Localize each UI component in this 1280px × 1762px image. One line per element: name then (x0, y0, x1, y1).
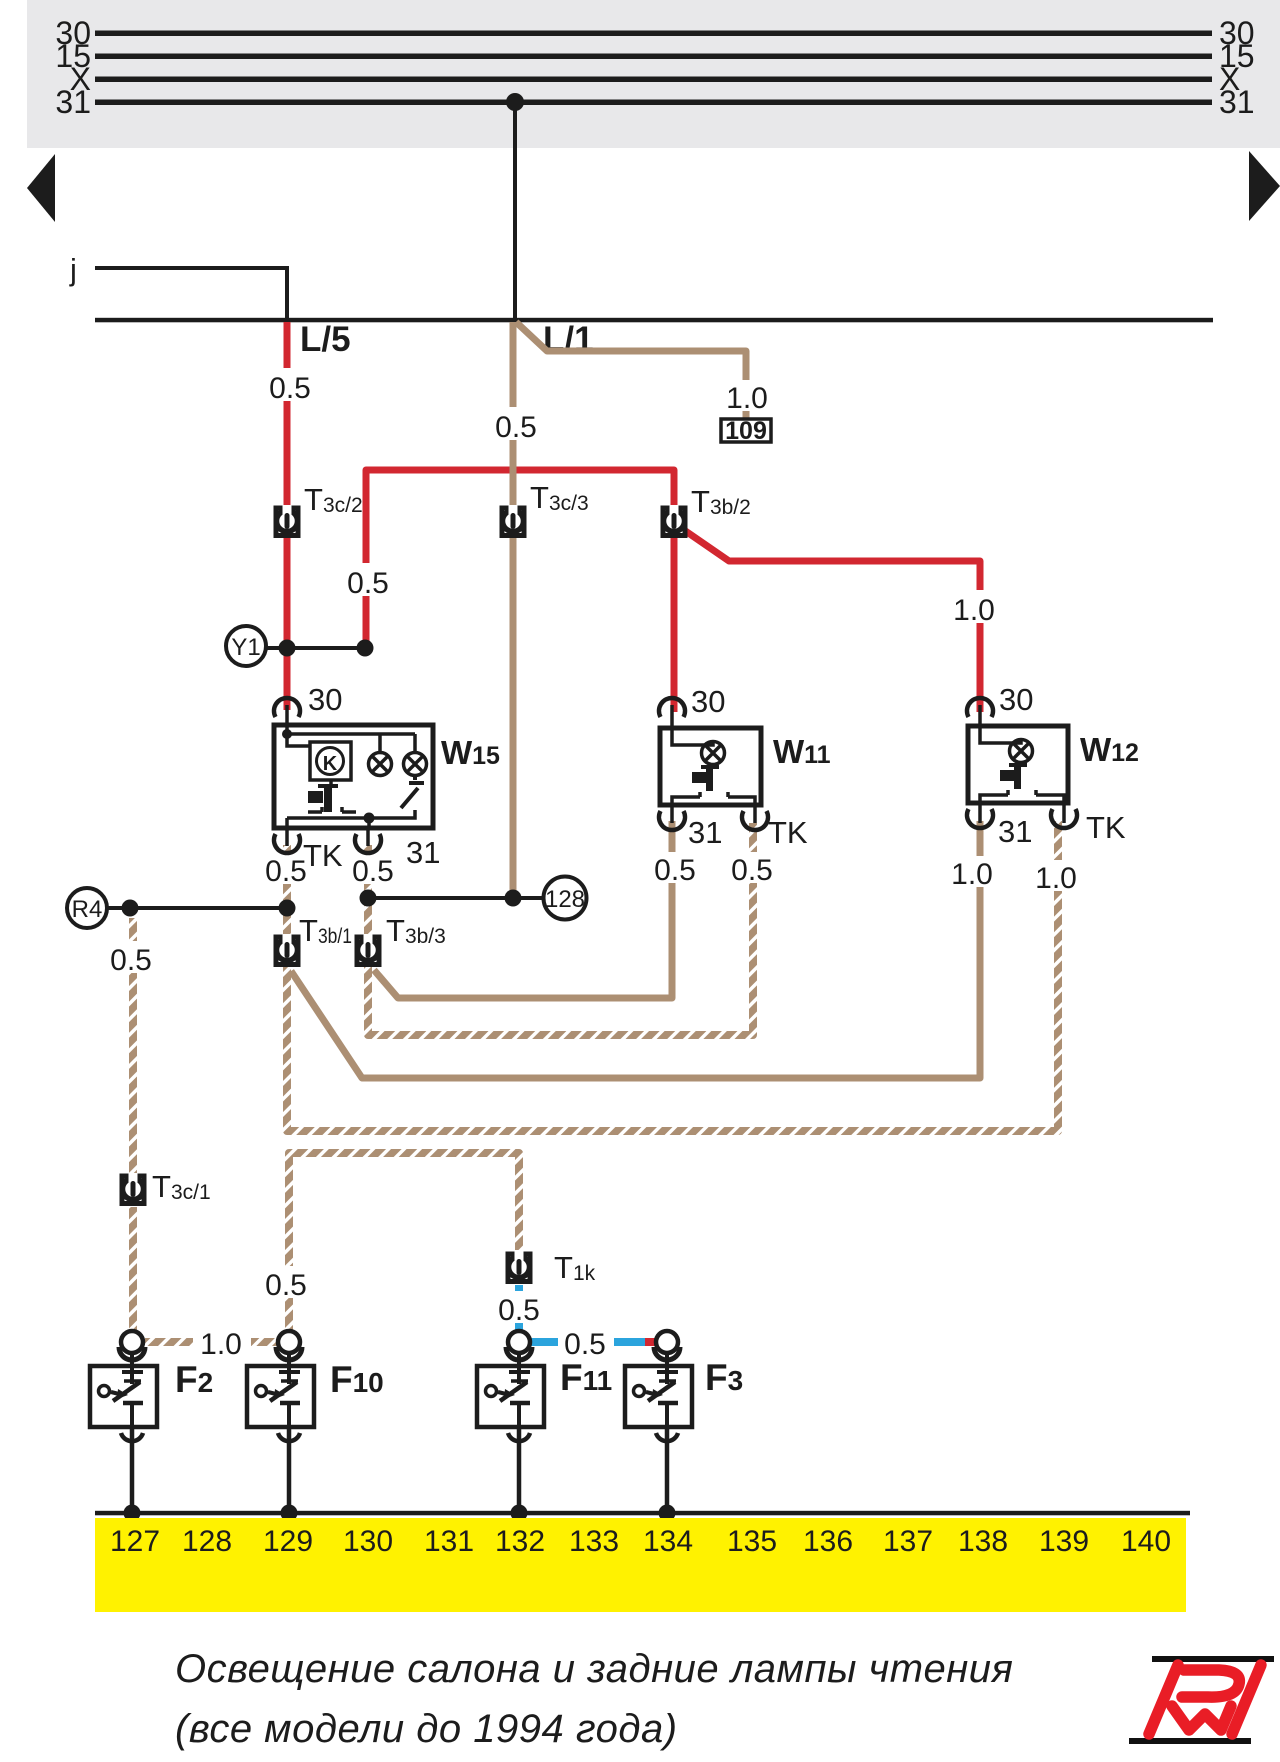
bus wire 31 (95, 100, 1212, 106)
wire tan W12 31 to T3b/1 (291, 821, 980, 1078)
svg-text:30: 30 (691, 684, 725, 719)
svg-text:Y1: Y1 (231, 634, 260, 661)
internal top rail (287, 734, 415, 753)
svg-text:136: 136 (803, 1525, 853, 1558)
wire hatched T3b/1 to W12 TK (287, 821, 1058, 1131)
lamp 1 (369, 753, 392, 776)
wire Y1 link (266, 646, 365, 650)
top bus band (27, 0, 1280, 148)
value label 0.5 between F11 F3 (563, 1324, 607, 1361)
wire red T3b/2 branch to W12 (684, 530, 980, 712)
bus wire 15 (95, 54, 1212, 60)
svg-text:31: 31 (688, 815, 722, 850)
svg-text:31: 31 (1219, 84, 1255, 120)
junction dot at T3b/1 top (279, 900, 296, 917)
switch F10 (247, 1331, 314, 1513)
connector T3c/3 (502, 505, 524, 536)
node Y1 (226, 626, 266, 666)
bus wire 30 (95, 31, 1212, 37)
terminal TK stub (285, 827, 289, 846)
svg-text:128: 128 (545, 886, 585, 913)
svg-text:139: 139 (1039, 1525, 1089, 1558)
node 109 box (721, 417, 771, 445)
svg-text:30: 30 (308, 682, 342, 717)
value label 0.5 on L/1 (494, 407, 538, 444)
node 128 (544, 877, 587, 920)
svg-text:135: 135 (727, 1525, 777, 1558)
lamp 2 (404, 753, 427, 776)
value label 0.5 under W15 31 (352, 853, 395, 888)
value label 0.5 on R4 wire (109, 941, 153, 977)
wire from bus 31 down (513, 102, 517, 320)
wire red riser to T3b/2 (366, 470, 674, 648)
connector T3b/1 (276, 934, 298, 965)
bus labels left (55, 15, 91, 120)
value label 0.5 under W11 TK (731, 852, 774, 887)
internal feed to relay (287, 734, 310, 746)
value label 0.5 below T1k (497, 1291, 541, 1327)
terminal 30 arc (274, 698, 300, 717)
wire hatched W15 31 to T3b/3 (364, 845, 372, 937)
junction dot R4 (122, 900, 139, 917)
wire red T3b/2 to W11 (671, 536, 678, 712)
junction dot F11 bus (511, 1505, 528, 1522)
transistor symbol (692, 772, 706, 783)
internal bottom rails (672, 792, 755, 805)
terminal 31 stub (366, 827, 370, 846)
wire tan W11 31 to T3b/3 (374, 821, 672, 998)
svg-text:0.5: 0.5 (731, 854, 773, 887)
W15 box (274, 725, 433, 828)
logo bottom bar (1129, 1738, 1251, 1744)
connector T3b/3 (357, 934, 379, 965)
transistor symbol (1000, 770, 1014, 781)
junction dot at T3b/3 top (360, 890, 377, 907)
wire hatched T3b/3 to W11 TK (368, 823, 753, 1035)
internal bottom rail (287, 810, 415, 827)
W12 box (968, 726, 1068, 803)
svg-text:0.5: 0.5 (110, 944, 152, 977)
wire hatched F10 riser to T1k (289, 1153, 519, 1330)
internal switch (401, 775, 424, 808)
value label 1.0 on red to W12 (952, 590, 996, 627)
W11 box (660, 728, 761, 805)
junction dot Y1 right (357, 640, 374, 657)
internal dot (282, 729, 292, 739)
terminal TK stub (1062, 803, 1066, 823)
svg-text:128: 128 (182, 1525, 232, 1558)
terminal 30 arc (967, 698, 993, 717)
svg-text:0.5: 0.5 (495, 411, 537, 444)
lamp unit W15 (274, 698, 433, 853)
svg-text:0.5: 0.5 (654, 854, 696, 887)
svg-text:j: j (69, 252, 77, 287)
svg-text:L/5: L/5 (300, 320, 351, 359)
terminal 31 arc (355, 834, 381, 853)
svg-text:1.0: 1.0 (953, 594, 995, 627)
terminal 31 stub (670, 805, 674, 823)
svg-text:TK: TK (768, 815, 808, 850)
lamp (1010, 740, 1033, 763)
terminal 31 stub (978, 803, 982, 823)
terminal TK arc (274, 834, 300, 853)
svg-text:131: 131 (424, 1525, 474, 1558)
junction dot F3 bus (659, 1505, 676, 1522)
wire R4 link (107, 906, 287, 910)
main horizontal wire (95, 318, 1213, 323)
junction dot F2 bus (124, 1505, 141, 1522)
svg-text:137: 137 (883, 1525, 933, 1558)
node R4 (67, 888, 107, 928)
connector T1k (508, 1251, 530, 1282)
value label 1.0 under W12 31 (951, 856, 994, 891)
svg-text:Освещение салона и задние ламп: Освещение салона и задние лампы чтения (175, 1647, 1013, 1691)
svg-text:31: 31 (55, 84, 91, 120)
value label 1.0 under W12 TK (1035, 860, 1078, 895)
svg-text:1.0: 1.0 (726, 382, 768, 415)
svg-text:(все модели до 1994 года): (все модели до 1994 года) (175, 1707, 678, 1751)
svg-text:0.5: 0.5 (498, 1294, 540, 1327)
value label 0.5 under W11 31 (654, 852, 697, 887)
svg-text:140: 140 (1121, 1525, 1171, 1558)
relay box (310, 742, 351, 780)
svg-text:1.0: 1.0 (200, 1328, 242, 1361)
connector T3c/1 (122, 1173, 144, 1204)
wire blue T1k to F11 (515, 1285, 523, 1330)
svg-text:1.0: 1.0 (1035, 862, 1077, 895)
wire blue F11 to F3 (531, 1338, 645, 1346)
svg-text:K: K (323, 753, 338, 775)
value label 0.5 on red riser (346, 563, 390, 600)
logo top bar (1152, 1656, 1274, 1662)
svg-text:138: 138 (958, 1525, 1008, 1558)
svg-text:130: 130 (343, 1525, 393, 1558)
svg-text:133: 133 (569, 1525, 619, 1558)
wire red stub at F3 (645, 1338, 656, 1346)
value label 0.5 under W15 TK (265, 853, 308, 888)
svg-text:TK: TK (1086, 810, 1126, 845)
svg-text:132: 132 (495, 1525, 545, 1558)
left direction arrow (27, 154, 55, 222)
svg-text:0.5: 0.5 (347, 567, 389, 600)
logo RW mark (1149, 1665, 1261, 1734)
wire red L/5 vertical (284, 322, 291, 710)
junction dot on bus 31 (506, 93, 524, 111)
wire j (95, 268, 287, 320)
value label 1.0 at 109 (725, 380, 769, 415)
junction dot tan L/1 end (505, 890, 522, 907)
bus labels right (1219, 15, 1255, 120)
lamp (702, 742, 725, 765)
svg-text:0.5: 0.5 (269, 372, 311, 405)
value label 1.0 between F2 F10 (198, 1324, 245, 1361)
svg-text:0.5: 0.5 (352, 855, 394, 888)
svg-text:31: 31 (406, 835, 440, 870)
contact ticks (308, 807, 356, 812)
svg-text:134: 134 (643, 1525, 693, 1558)
svg-text:127: 127 (110, 1525, 160, 1558)
wire tan L/1 vertical (510, 322, 517, 898)
connector T3c/2 (276, 505, 298, 536)
relay coil circle K (317, 748, 344, 775)
svg-text:1.0: 1.0 (951, 858, 993, 891)
svg-text:109: 109 (725, 417, 767, 445)
switch F11 (477, 1331, 544, 1513)
svg-text:30: 30 (999, 682, 1033, 717)
wire hatched T3c/1 to F2 (129, 1207, 137, 1330)
svg-text:129: 129 (263, 1525, 313, 1558)
wire hatched W15 TK to T3b/1 (283, 845, 291, 937)
switch F2 (90, 1331, 157, 1513)
wire hatched R4 to T3c/1 (129, 918, 137, 1175)
relay contact bars (329, 780, 333, 788)
internal bottom rails (980, 790, 1064, 803)
svg-text:0.5: 0.5 (265, 1269, 307, 1302)
track numbers (110, 1525, 1171, 1558)
right direction arrow (1249, 151, 1280, 221)
wire 31-node line to 128 (368, 896, 543, 900)
svg-text:0.5: 0.5 (265, 855, 307, 888)
lamp unit W12 (967, 698, 1077, 828)
terminal TK stub (753, 805, 757, 823)
switch F3 (625, 1331, 692, 1513)
bottom bus wire (95, 1511, 1190, 1516)
svg-text:R4: R4 (72, 896, 103, 923)
junction dot Y1 left (279, 640, 296, 657)
terminal 30 arc (659, 698, 685, 717)
wire hatched F2 to F10 (145, 1338, 277, 1346)
bus wire X (95, 77, 1212, 83)
wire tan branch to 109 (516, 322, 746, 419)
junction dot F10 bus (281, 1505, 298, 1522)
track number band (95, 1518, 1186, 1612)
terminal 30 stub (285, 705, 289, 734)
value label 0.5 above F10 (264, 1266, 308, 1302)
value label 0.5 on L/5 (268, 368, 312, 405)
svg-text:TK: TK (303, 838, 343, 873)
lamp unit W11 (659, 698, 768, 830)
connector T3b/2 (663, 505, 685, 536)
svg-text:31: 31 (998, 814, 1032, 849)
